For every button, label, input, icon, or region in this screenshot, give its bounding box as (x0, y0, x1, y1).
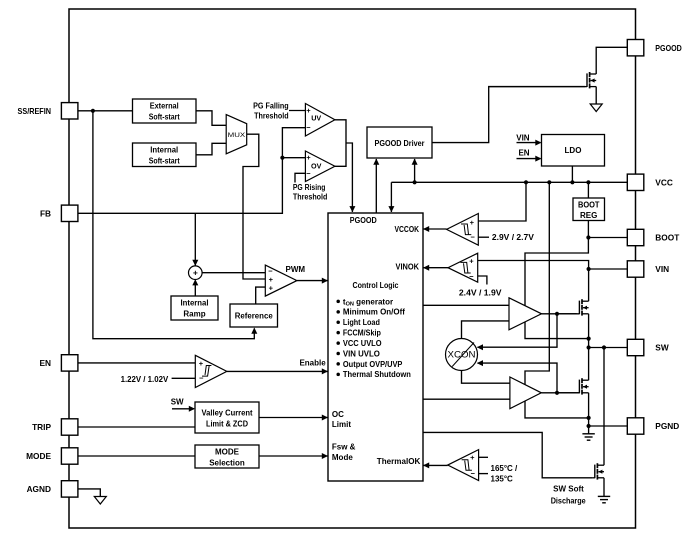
svg-text:External: External (150, 102, 179, 111)
svg-text:Ramp: Ramp (183, 309, 205, 318)
svg-text:ThermalOK: ThermalOK (377, 457, 421, 466)
svg-text:Enable: Enable (299, 359, 326, 368)
svg-text:LDO: LDO (565, 146, 582, 155)
svg-text:Light Load: Light Load (343, 318, 380, 327)
svg-text:AGND: AGND (27, 484, 51, 494)
svg-text:Control Logic: Control Logic (353, 281, 399, 290)
svg-text:PGOOD: PGOOD (655, 43, 682, 53)
svg-text:+: + (193, 268, 198, 278)
svg-text:Internal: Internal (150, 146, 178, 155)
svg-text:SW: SW (655, 343, 669, 353)
svg-text:+: + (469, 256, 474, 265)
svg-text:VCC: VCC (655, 178, 673, 188)
svg-text:135°C: 135°C (491, 474, 514, 483)
svg-text:BOOT: BOOT (655, 233, 679, 243)
svg-text:Selection: Selection (209, 459, 245, 468)
svg-text:EN: EN (39, 358, 51, 368)
svg-text:VCCOK: VCCOK (395, 225, 420, 234)
svg-text:PGOOD: PGOOD (350, 216, 377, 225)
svg-text:VIN UVLO: VIN UVLO (343, 349, 380, 358)
svg-text:Soft-start: Soft-start (149, 113, 180, 122)
svg-text:FB: FB (40, 209, 51, 219)
svg-text:−: − (199, 374, 204, 383)
svg-text:SW Soft: SW Soft (553, 485, 584, 494)
svg-text:VINOK: VINOK (396, 263, 420, 272)
svg-text:+: + (470, 453, 475, 462)
svg-text:PGND: PGND (655, 421, 679, 431)
svg-text:MODE: MODE (215, 447, 240, 456)
svg-text:Valley Current: Valley Current (202, 408, 253, 417)
svg-text:Threshold: Threshold (293, 193, 328, 202)
svg-text:Reference: Reference (235, 311, 274, 320)
svg-text:Minimum On/Off: Minimum On/Off (343, 308, 405, 317)
svg-text:TRIP: TRIP (32, 422, 51, 432)
svg-text:SS/REFIN: SS/REFIN (18, 106, 52, 116)
svg-text:MODE: MODE (26, 451, 51, 461)
svg-text:Mode: Mode (332, 453, 353, 462)
svg-text:VIN: VIN (655, 264, 669, 274)
svg-text:VIN: VIN (516, 133, 530, 142)
svg-text:FCCM/Skip: FCCM/Skip (343, 329, 381, 338)
svg-text:XCON: XCON (448, 350, 476, 360)
svg-text:2.4V / 1.9V: 2.4V / 1.9V (459, 288, 502, 297)
svg-text:Soft-start: Soft-start (149, 157, 180, 166)
svg-text:+: + (470, 218, 475, 227)
svg-text:165°C /: 165°C / (491, 464, 519, 473)
svg-text:Fsw &: Fsw & (332, 443, 356, 452)
svg-text:VCC UVLO: VCC UVLO (343, 339, 382, 348)
svg-text:Limit & ZCD: Limit & ZCD (206, 420, 248, 429)
svg-text:Discharge: Discharge (551, 496, 586, 505)
svg-text:+: + (199, 359, 204, 368)
svg-text:PG Rising: PG Rising (293, 183, 326, 192)
svg-text:+: + (269, 284, 274, 293)
svg-text:Internal: Internal (181, 298, 209, 307)
svg-text:Thermal Shutdown: Thermal Shutdown (343, 370, 411, 379)
svg-text:Output OVP/UVP: Output OVP/UVP (343, 360, 403, 369)
svg-text:BOOT: BOOT (578, 200, 600, 209)
svg-text:1.22V / 1.02V: 1.22V / 1.02V (121, 375, 169, 384)
svg-text:−: − (471, 233, 476, 242)
svg-text:SW: SW (171, 398, 184, 407)
svg-text:−: − (306, 123, 311, 132)
svg-text:EN: EN (518, 149, 529, 158)
svg-text:PGOOD Driver: PGOOD Driver (375, 139, 425, 148)
svg-text:UV: UV (311, 114, 321, 123)
svg-text:2.9V / 2.7V: 2.9V / 2.7V (492, 233, 535, 242)
svg-text:Limit: Limit (332, 420, 351, 429)
svg-text:OV: OV (311, 161, 322, 170)
svg-text:PG Falling: PG Falling (253, 102, 289, 111)
svg-text:MUX: MUX (228, 133, 246, 139)
svg-text:Threshold: Threshold (254, 112, 289, 121)
svg-text:OC: OC (332, 410, 344, 419)
svg-text:PWM: PWM (286, 265, 306, 274)
svg-text:REG: REG (580, 211, 597, 220)
